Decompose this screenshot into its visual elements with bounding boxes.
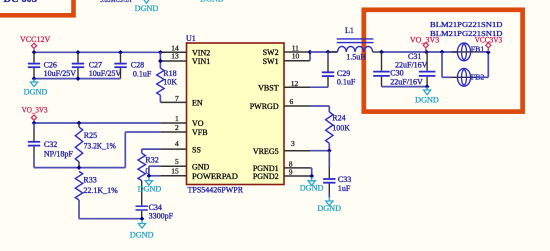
svg-text:3: 3 xyxy=(291,139,295,148)
svg-text:DGND: DGND xyxy=(300,184,324,193)
svg-text:C30: C30 xyxy=(390,69,403,78)
svg-text:9.83MC9/5A: 9.83MC9/5A xyxy=(100,0,132,4)
svg-text:DGND: DGND xyxy=(24,87,48,96)
svg-text:0.1uF: 0.1uF xyxy=(133,69,152,78)
svg-text:C32: C32 xyxy=(44,140,57,149)
svg-text:10uF/25V: 10uF/25V xyxy=(89,69,122,78)
svg-text:NP/18pF: NP/18pF xyxy=(44,150,73,159)
svg-text:DGND: DGND xyxy=(317,204,341,213)
svg-text:TPS54426PWPR: TPS54426PWPR xyxy=(188,186,244,195)
svg-text:VO: VO xyxy=(192,119,204,128)
svg-text:DGND: DGND xyxy=(200,0,224,3)
svg-text:13: 13 xyxy=(171,52,179,61)
svg-text:22.1K_1%: 22.1K_1% xyxy=(83,186,118,195)
svg-text:VCC12V: VCC12V xyxy=(20,35,50,44)
svg-text:DGND: DGND xyxy=(138,184,162,193)
svg-text:DGND: DGND xyxy=(130,230,154,239)
svg-text:R32: R32 xyxy=(145,156,158,165)
svg-text:5: 5 xyxy=(175,157,179,166)
svg-text:9: 9 xyxy=(289,168,293,177)
svg-text:0.1uF: 0.1uF xyxy=(337,78,356,87)
svg-text:C33: C33 xyxy=(338,175,351,184)
svg-text:3300pF: 3300pF xyxy=(149,211,174,220)
svg-text:DGND: DGND xyxy=(415,95,439,104)
svg-text:DGND: DGND xyxy=(135,4,159,13)
svg-text:L1: L1 xyxy=(345,26,354,35)
svg-text:R33: R33 xyxy=(83,175,96,184)
svg-text:VO_3V3: VO_3V3 xyxy=(22,106,48,115)
svg-text:4: 4 xyxy=(175,139,179,148)
svg-text:10uF/25V: 10uF/25V xyxy=(44,69,77,78)
svg-text:POWERPAD: POWERPAD xyxy=(192,172,238,181)
svg-text:SS: SS xyxy=(192,145,201,154)
svg-text:SW2: SW2 xyxy=(263,48,279,57)
svg-text:U1: U1 xyxy=(186,34,196,43)
svg-text:BLM21PG221SN1D: BLM21PG221SN1D xyxy=(430,20,503,29)
svg-text:7: 7 xyxy=(175,94,179,103)
svg-text:6: 6 xyxy=(290,97,294,106)
svg-text:73.2K_1%: 73.2K_1% xyxy=(84,142,116,151)
svg-text:R24: R24 xyxy=(332,114,345,123)
svg-text:PWRGD: PWRGD xyxy=(250,102,279,111)
svg-text:VBST: VBST xyxy=(258,83,279,92)
svg-text:100K: 100K xyxy=(332,123,350,132)
svg-text:1uF: 1uF xyxy=(338,184,351,193)
svg-text:10K: 10K xyxy=(163,78,177,87)
svg-text:VREG5: VREG5 xyxy=(253,147,279,156)
svg-text:VFB: VFB xyxy=(192,128,208,137)
svg-text:SW1: SW1 xyxy=(263,57,279,66)
svg-text:EN: EN xyxy=(192,99,203,108)
svg-text:DC 605: DC 605 xyxy=(4,0,38,5)
svg-text:22uF/16V: 22uF/16V xyxy=(395,61,428,70)
svg-text:12: 12 xyxy=(291,79,299,88)
svg-text:2: 2 xyxy=(175,123,179,132)
svg-text:R25: R25 xyxy=(84,131,97,140)
svg-text:22uF/16V: 22uF/16V xyxy=(390,77,423,86)
svg-text:VIN2: VIN2 xyxy=(192,49,210,58)
svg-text:1: 1 xyxy=(175,114,179,123)
svg-text:GND: GND xyxy=(192,162,210,171)
svg-text:PGND2: PGND2 xyxy=(253,172,279,181)
svg-text:VIN1: VIN1 xyxy=(192,57,210,66)
svg-text:15: 15 xyxy=(171,166,179,175)
svg-text:1.5uH: 1.5uH xyxy=(346,52,366,61)
svg-text:10: 10 xyxy=(292,52,300,61)
